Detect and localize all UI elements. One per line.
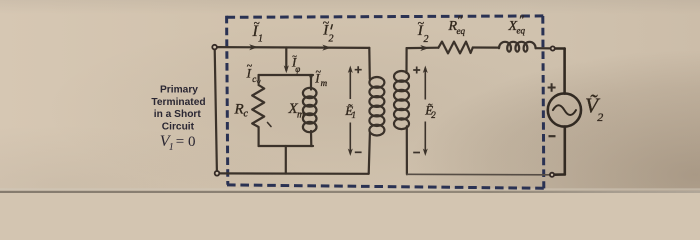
svg-text:m: m: [321, 78, 328, 88]
svg-text:Primary: Primary: [160, 85, 198, 96]
svg-text:eq: eq: [457, 26, 466, 36]
svg-text:c: c: [252, 74, 256, 84]
svg-text:~: ~: [316, 67, 322, 78]
svg-text:2: 2: [597, 110, 603, 124]
svg-text:m: m: [297, 110, 304, 121]
svg-text:Terminated: Terminated: [151, 97, 205, 108]
svg-text:c: c: [244, 109, 249, 120]
svg-text:~: ~: [418, 16, 425, 30]
svg-text:2: 2: [424, 34, 429, 45]
svg-text:= 0: = 0: [176, 134, 196, 150]
svg-text:1: 1: [169, 142, 174, 153]
svg-text:~: ~: [292, 51, 297, 61]
svg-text:~: ~: [323, 15, 330, 29]
svg-text:in a Short: in a Short: [154, 109, 202, 120]
svg-text:φ: φ: [295, 64, 300, 74]
svg-text:eq: eq: [517, 26, 526, 36]
svg-text:2: 2: [329, 34, 334, 45]
svg-text:~: ~: [254, 17, 260, 29]
svg-text:R: R: [234, 102, 244, 118]
svg-text:Circuit: Circuit: [162, 121, 195, 132]
svg-text:2: 2: [431, 110, 436, 120]
svg-text:~: ~: [247, 61, 253, 72]
svg-text:1: 1: [258, 34, 263, 45]
svg-text:1: 1: [352, 110, 357, 120]
